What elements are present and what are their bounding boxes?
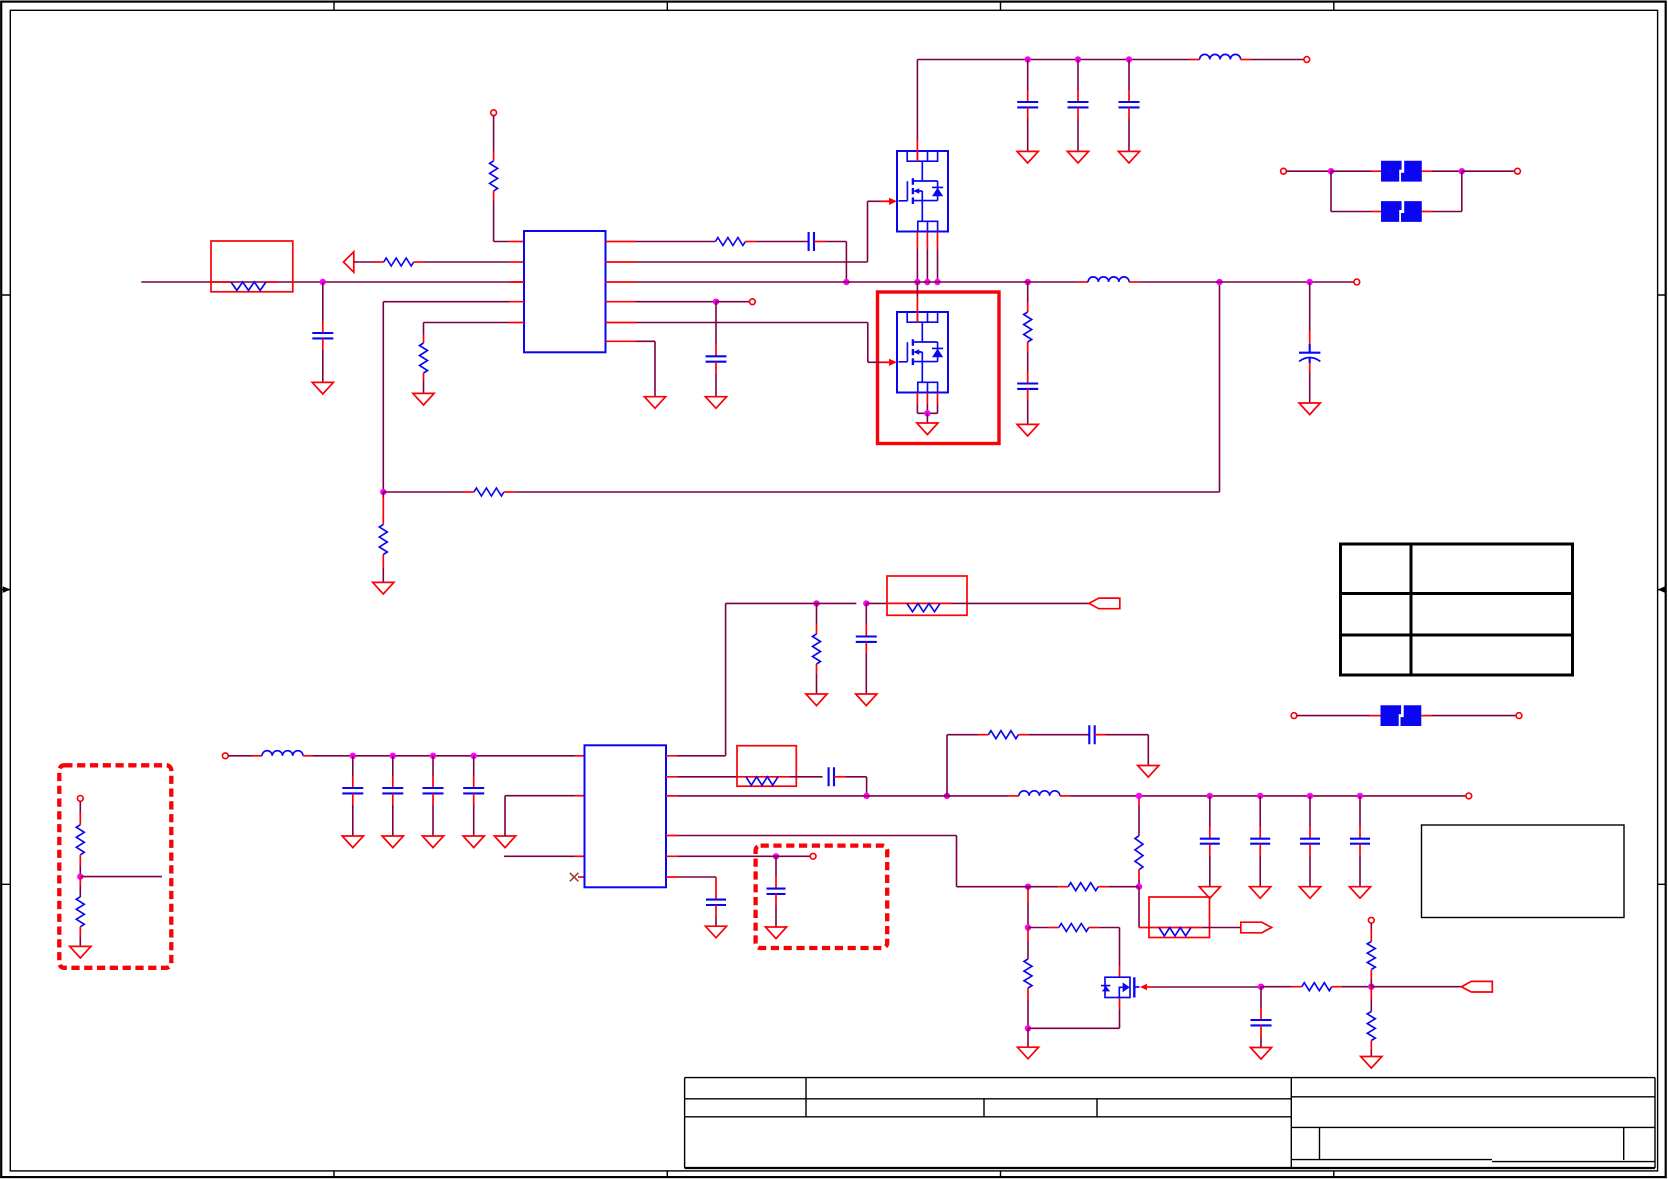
ground C16	[1250, 887, 1271, 899]
junction top rail c3	[1025, 56, 1031, 62]
Q1 source pins to SW rail	[917, 232, 937, 250]
terminal circle VOS	[810, 853, 816, 859]
junction output rail at C13	[863, 793, 869, 799]
wire U1 gate-high to Q1	[636, 261, 868, 263]
wire F3 left	[1297, 715, 1370, 717]
wire L3 to U2	[303, 755, 313, 757]
wire U1 gate-low to Q2	[636, 322, 868, 324]
revision table top-right	[1341, 544, 1573, 675]
junction gate row c19	[1258, 984, 1264, 990]
wire input rail left segment	[141, 281, 509, 283]
junction bst row r9	[813, 600, 819, 606]
wire U2 pin VOS	[678, 855, 766, 857]
junction top rail c5	[1126, 56, 1132, 62]
resistor element inside FB1	[231, 282, 266, 290]
inductor L3	[262, 751, 303, 756]
junction feedback tap	[944, 793, 950, 799]
capacitor C13 series	[829, 767, 834, 786]
junction out rail c15	[1207, 793, 1213, 799]
ground C10	[342, 836, 363, 848]
resistor R5	[474, 488, 504, 496]
capacitor C12 to ground	[865, 603, 867, 624]
junction Q2 source	[924, 410, 930, 416]
terminal circle divider top	[77, 796, 83, 802]
capacitor C12 input	[432, 756, 434, 776]
resistor R2	[384, 258, 414, 266]
capacitor C16 output	[1259, 796, 1261, 826]
terminal circle fuse pair in	[1281, 168, 1287, 174]
wire U1 pin comp to R7	[636, 241, 716, 243]
ground C21	[705, 926, 726, 938]
capacitor C18 output	[1359, 796, 1361, 826]
center arrow left edge	[1, 589, 9, 591]
junction FB chain	[1025, 924, 1031, 930]
ground C1	[312, 382, 333, 394]
Q2 source pins to ground bar	[917, 393, 937, 405]
ground R9	[806, 694, 827, 706]
junction bst row c12	[863, 600, 869, 606]
ground C3	[1017, 151, 1038, 163]
wire bst row	[807, 602, 857, 604]
wire R13 to Q3 drain	[1089, 927, 1099, 929]
wire FB2 to port	[967, 602, 1089, 604]
U1 right pins	[606, 242, 636, 342]
wire source net to Q3	[1028, 1027, 1120, 1029]
red highlight box around Q2	[878, 292, 1000, 444]
capacitor C7 snubber	[1027, 372, 1029, 384]
wire to fuse F1	[1331, 170, 1371, 172]
terminal circle SS	[750, 299, 756, 305]
wire U2 FB net	[678, 835, 957, 837]
ground C6	[705, 397, 726, 409]
wire R12 to divider mid	[1098, 886, 1108, 888]
polarized capacitor C9 output	[1309, 282, 1311, 330]
zone tick marks bottom edge	[334, 1171, 1334, 1177]
resistor R18 vertical	[79, 801, 81, 812]
junction divider left	[77, 873, 83, 879]
resistor R12	[1068, 883, 1098, 891]
ground C20	[765, 927, 786, 939]
junction out rail c17	[1307, 793, 1313, 799]
capacitor C11 input	[392, 756, 394, 776]
component box FB2 red	[887, 576, 967, 615]
fuse F2	[1381, 201, 1422, 222]
wire R3 to U1 pin1	[494, 241, 510, 243]
resistor R10 feedback	[988, 731, 1018, 739]
ground C12	[422, 836, 443, 848]
wire FB3 to C13	[796, 776, 822, 778]
port flag gate control	[1462, 981, 1493, 992]
wire fuse pair right terminal	[1462, 170, 1515, 172]
junction out rail c18	[1357, 793, 1363, 799]
no-connect X U2	[570, 873, 579, 882]
junction gate divider	[1368, 984, 1374, 990]
capacitor C4	[1077, 60, 1079, 91]
wire U1 pin4 net left-down	[383, 301, 509, 303]
component box FB1 (filter bead in red box)	[211, 241, 293, 292]
U2 right pins	[666, 756, 678, 877]
MOSFET Q1 high-side package	[897, 151, 948, 232]
ground C5	[1118, 151, 1139, 163]
wire R7 to C2	[745, 241, 755, 243]
wire input to L3	[228, 755, 252, 757]
resistor R9 to ground	[816, 603, 818, 624]
terminal circle pullup R16	[1368, 917, 1374, 923]
ground C7	[1017, 424, 1038, 436]
capacitor C15 output	[1209, 796, 1211, 826]
wire C2 down to SW rail	[814, 241, 826, 243]
junction input rail2 c13	[471, 753, 477, 759]
inductor L4	[1009, 795, 1019, 797]
terminal circle VOUT2	[1466, 793, 1472, 799]
terminal circle VIN pullup	[491, 110, 497, 116]
wire stub U2 pin3 left	[504, 855, 575, 857]
gate arrow into Q2	[881, 361, 890, 363]
ground Q2	[926, 413, 928, 423]
gate arrow into Q1	[881, 200, 890, 202]
center arrow right edge	[1658, 589, 1666, 591]
wire SW rail mid segment	[938, 281, 1018, 283]
capacitor C20	[775, 856, 777, 876]
resistor R3 vertical	[493, 116, 495, 151]
wire VIN top rail	[916, 140, 918, 162]
ground pin U2 AGND	[494, 836, 515, 848]
junction SW rail sense	[1216, 279, 1222, 285]
wire R2 to U1 pin2	[414, 261, 424, 263]
wire gate row to R15	[1261, 986, 1292, 988]
ground C19	[1250, 1048, 1271, 1060]
capacitor C6 soft-start	[715, 302, 717, 344]
ground feedback	[1138, 766, 1159, 778]
capacitor C17 output	[1309, 796, 1311, 826]
fuse F1	[1381, 161, 1422, 182]
resistor element inside FB4	[1159, 928, 1191, 936]
wire AGND to U2	[504, 796, 506, 836]
wire EN to R2	[354, 261, 374, 263]
IC U1 regulator body	[524, 231, 606, 352]
terminal circle VIN2	[222, 753, 228, 759]
resistor R17 vertical	[1370, 987, 1372, 999]
wire divider tap	[80, 876, 162, 878]
junction top rail c4	[1075, 56, 1081, 62]
capacitor C5	[1128, 60, 1130, 91]
resistor R7	[715, 238, 745, 246]
inductor L1 top	[1190, 59, 1200, 61]
ground C4	[1067, 151, 1088, 163]
ground C12	[856, 694, 877, 706]
ground C11	[382, 836, 403, 848]
junction input rail2 c12	[430, 753, 436, 759]
ground C17	[1299, 887, 1320, 899]
resistor R11 divider top	[1138, 796, 1140, 806]
junction input rail at C1	[320, 279, 326, 285]
terminal circle SW out	[1354, 279, 1360, 285]
wire to R13	[1028, 927, 1049, 929]
terminal circle fuse F3 out	[1516, 713, 1522, 719]
wire Q3 gate row	[1153, 986, 1261, 988]
U1 left pins	[510, 282, 524, 323]
junction fuse pair left	[1328, 168, 1334, 174]
wire U2 BST up	[678, 755, 726, 757]
capacitor C21	[706, 900, 726, 905]
junction input rail2 c10	[350, 753, 356, 759]
capacitor C14 series	[1089, 725, 1094, 744]
title block bottom	[685, 1078, 1655, 1168]
resistor R19 vertical	[79, 877, 81, 886]
wire R15 to divider	[1332, 986, 1342, 988]
capacitor C3	[1027, 60, 1029, 91]
wire feedback row y492	[383, 491, 463, 493]
wire FB4 to port	[1210, 927, 1241, 929]
wire feedback top path	[946, 735, 948, 796]
wire SW rail from U1 to Q1	[636, 281, 938, 283]
ground C13	[463, 836, 484, 848]
component box FB4 red	[1149, 897, 1210, 938]
junction lower net	[380, 489, 386, 495]
junction divider mid	[1136, 884, 1142, 890]
wire fuse F2 right	[1422, 211, 1432, 213]
wire U1 pin SS with terminal	[636, 301, 717, 303]
component box FB3 red	[737, 746, 796, 787]
junction SW rail at R8	[1025, 279, 1031, 285]
wire U2 VOUT rail	[678, 795, 937, 797]
zone tick marks left edge	[1, 295, 10, 884]
ground R6	[373, 582, 394, 594]
MOSFET Q2 low-side package	[897, 312, 948, 393]
MOSFET Q3 small	[1101, 977, 1140, 997]
inductor L2 SW	[1018, 281, 1078, 283]
capacitor C13 input	[473, 756, 475, 776]
ground U1 pin6	[644, 397, 665, 409]
resistor R15	[1302, 983, 1332, 991]
IC U2 regulator body	[585, 745, 667, 887]
wire U1 pin6 to ground	[636, 340, 656, 342]
wire fuse F2 branch	[1330, 171, 1332, 211]
wire Q2 drain from SW rail	[916, 282, 918, 297]
zone tick marks right edge	[1658, 295, 1666, 884]
wire U1 pin5 to R4	[424, 322, 510, 324]
wire U2 SW to FB3	[678, 776, 737, 778]
capacitor C10 input	[352, 756, 354, 776]
terminal circle VIN out	[1304, 57, 1310, 63]
wire FB chain down	[1027, 887, 1029, 890]
zone tick marks top edge	[334, 2, 1334, 11]
junction SW rail at C-out	[1307, 279, 1313, 285]
ground C9	[1299, 403, 1320, 415]
resistor R8 snubber	[1027, 282, 1029, 302]
ground C18	[1349, 887, 1370, 899]
ground C15	[1199, 887, 1220, 899]
junction VOS	[773, 853, 779, 859]
resistor R13	[1059, 924, 1089, 932]
junction FB net	[1025, 884, 1031, 890]
gate arrow into Q3	[1140, 984, 1147, 990]
wire FB to R12	[1018, 886, 1058, 888]
port flag FB out	[1241, 922, 1272, 933]
resistor R14 chain	[1027, 928, 1029, 942]
terminal circle fuse F3 in	[1291, 713, 1297, 719]
wire divider to port	[1371, 986, 1461, 988]
capacitor C1	[322, 282, 324, 321]
capacitor C2 series	[809, 232, 814, 251]
capacitor C19	[1260, 987, 1262, 1008]
wire C14 to ground	[1095, 734, 1106, 736]
junction Q3 source net	[1025, 1025, 1031, 1031]
wire U2 pin6 to C21	[678, 876, 716, 878]
wire fuse F1 right	[1422, 170, 1432, 172]
resistor element inside FB2	[907, 603, 940, 611]
terminal circle fuse pair out	[1515, 168, 1521, 174]
port arrow EN (triangle)	[344, 252, 354, 272]
title block bottom heavy line	[685, 1167, 1655, 1169]
port flag BST	[1089, 598, 1120, 609]
ground R4	[423, 373, 425, 380]
ground R19	[70, 946, 91, 958]
resistor R16 vertical	[1370, 923, 1372, 929]
junctions SW rail at Q1 pins	[914, 279, 920, 285]
ground R14	[1027, 1028, 1029, 1047]
wire fuse pair left	[1287, 170, 1332, 172]
wire F3 right	[1421, 715, 1431, 717]
resistor R4 vertical	[420, 343, 428, 373]
junction SW rail at C2 branch	[843, 279, 849, 285]
dashed option box right	[756, 846, 888, 948]
ground R17	[1361, 1057, 1382, 1069]
junction input rail2 c11	[390, 753, 396, 759]
note box right	[1422, 825, 1625, 918]
fuse F3	[1381, 705, 1422, 726]
wire divider mid down to FB4	[1138, 887, 1140, 928]
wire R10 to C14	[1018, 734, 1028, 736]
resistor R6 vertical to ground	[382, 492, 384, 497]
resistor element inside FB3	[746, 777, 778, 785]
wire R5 to SW-sense vertical	[504, 491, 515, 493]
dashed option box left	[59, 765, 171, 968]
junction fuse pair right	[1459, 168, 1465, 174]
junction SS	[713, 299, 719, 305]
wire C13 to output rail	[834, 776, 846, 778]
junction out rail at R11	[1136, 793, 1142, 799]
junction out rail c16	[1257, 793, 1263, 799]
